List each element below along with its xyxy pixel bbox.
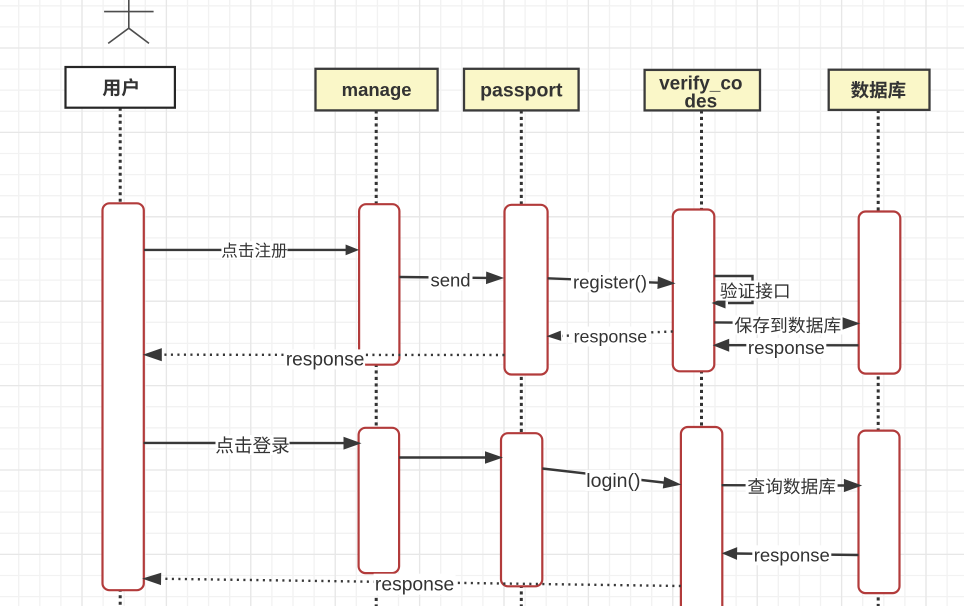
label 点击登录 [216, 435, 290, 455]
svg-text:response: response [754, 545, 830, 566]
lifeline head box 数据库 [829, 70, 930, 110]
label register() [571, 272, 649, 293]
message arrow login() (passport -> verify_codes) [542, 469, 681, 489]
lifeline head box verify_codes [645, 70, 760, 113]
verify_codes activation bar 1 [673, 210, 715, 372]
label send [429, 270, 473, 291]
svg-text:send: send [430, 270, 470, 291]
lifeline database [877, 110, 880, 606]
message arrow 点击登录 (user -> manage) [144, 437, 362, 450]
label login() [585, 470, 641, 492]
svg-text:response: response [375, 575, 454, 596]
lifeline manage [375, 110, 378, 606]
user activation bar [103, 203, 144, 590]
passport activation bar 1 [505, 205, 548, 375]
message arrow register() (passport -> verify_codes) [548, 276, 676, 289]
lifeline head box manage [316, 69, 438, 111]
label response (verify->passport) [572, 327, 648, 347]
message arrow send (manage -> passport) [399, 272, 504, 285]
return arrow response dashed (passport -> user) [143, 348, 505, 361]
lifeline head box 用户 [66, 67, 175, 108]
message arrow 点击注册 (user -> manage) [144, 245, 359, 256]
passport activation bar 2 [501, 433, 542, 586]
label response (db->verify 2) [752, 545, 831, 566]
svg-text:response: response [748, 337, 825, 358]
lifeline user [119, 108, 122, 606]
label response (verify->user) [374, 574, 456, 596]
return arrow response (database -> verify_codes) [722, 547, 859, 560]
label response (db->verify 1) [746, 337, 826, 358]
label 保存到数据库 [733, 316, 843, 335]
message arrow 查询数据库 (verify_codes -> database) [722, 479, 863, 492]
lifeline verify_codes [700, 110, 703, 606]
manage activation bar 2 [359, 428, 400, 573]
verify_codes activation bar 2 [681, 427, 722, 606]
label 查询数据库 [746, 477, 838, 496]
svg-text:passport: passport [480, 79, 563, 101]
message arrow (manage -> passport) [399, 451, 503, 464]
label 验证接口 [717, 281, 791, 301]
return arrow response (database -> verify_codes) [713, 339, 859, 352]
label response (passport->user) [285, 349, 365, 370]
lifeline passport [520, 110, 523, 606]
manage activation bar 1 [359, 204, 399, 365]
return arrow response dashed (verify_codes -> passport) [547, 331, 673, 341]
return arrow response dashed (verify_codes -> user) [142, 573, 681, 586]
svg-text:register(): register() [573, 272, 647, 293]
actor stick figure (user) [104, 0, 154, 43]
label 点击注册 [221, 241, 287, 259]
svg-text:des: des [684, 92, 717, 113]
database activation bar 2 [859, 431, 900, 593]
svg-text:manage: manage [342, 79, 412, 100]
svg-text:login(): login() [586, 470, 640, 492]
self message 验证接口 (verify_codes) [712, 276, 753, 309]
message arrow 保存到数据库 (verify_codes -> database) [714, 317, 860, 330]
svg-text:response: response [574, 327, 648, 347]
database activation bar 1 [859, 212, 901, 374]
lifeline head box passport [464, 69, 579, 111]
svg-text:response: response [286, 349, 365, 370]
